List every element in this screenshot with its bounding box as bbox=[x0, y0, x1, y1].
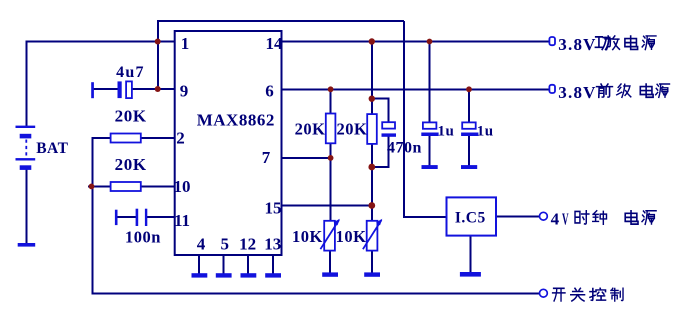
svg-text:1: 1 bbox=[181, 34, 190, 53]
svg-text:20K: 20K bbox=[337, 120, 368, 139]
svg-text:13: 13 bbox=[264, 235, 281, 254]
svg-text:1u: 1u bbox=[477, 124, 494, 140]
svg-text:10K: 10K bbox=[336, 227, 367, 246]
svg-text:3.8V: 3.8V bbox=[558, 35, 596, 54]
svg-text:11: 11 bbox=[174, 211, 190, 230]
svg-text:470n: 470n bbox=[387, 140, 422, 157]
svg-text:4: 4 bbox=[551, 209, 560, 228]
svg-text:V: V bbox=[562, 209, 569, 228]
svg-text:20K: 20K bbox=[295, 120, 326, 139]
svg-text:7: 7 bbox=[262, 148, 271, 167]
svg-text:4: 4 bbox=[197, 235, 206, 254]
svg-text:I.C5: I.C5 bbox=[455, 210, 486, 227]
svg-text:4u7: 4u7 bbox=[116, 64, 145, 81]
svg-text:100n: 100n bbox=[125, 228, 161, 247]
svg-text:6: 6 bbox=[265, 82, 274, 101]
svg-text:9: 9 bbox=[180, 82, 189, 101]
svg-text:10K: 10K bbox=[292, 227, 323, 246]
svg-text:14: 14 bbox=[266, 34, 284, 53]
svg-text:12: 12 bbox=[239, 235, 256, 254]
svg-text:1u: 1u bbox=[438, 124, 455, 140]
svg-text:5: 5 bbox=[221, 235, 230, 254]
svg-text:BAT: BAT bbox=[36, 140, 68, 157]
svg-text:20K: 20K bbox=[115, 155, 147, 174]
svg-text:10: 10 bbox=[174, 177, 191, 196]
svg-text:MAX8862: MAX8862 bbox=[197, 110, 275, 129]
svg-text:2: 2 bbox=[176, 129, 185, 148]
svg-text:3.8V: 3.8V bbox=[558, 83, 596, 102]
svg-text:20K: 20K bbox=[115, 107, 147, 126]
svg-text:15: 15 bbox=[265, 199, 282, 218]
